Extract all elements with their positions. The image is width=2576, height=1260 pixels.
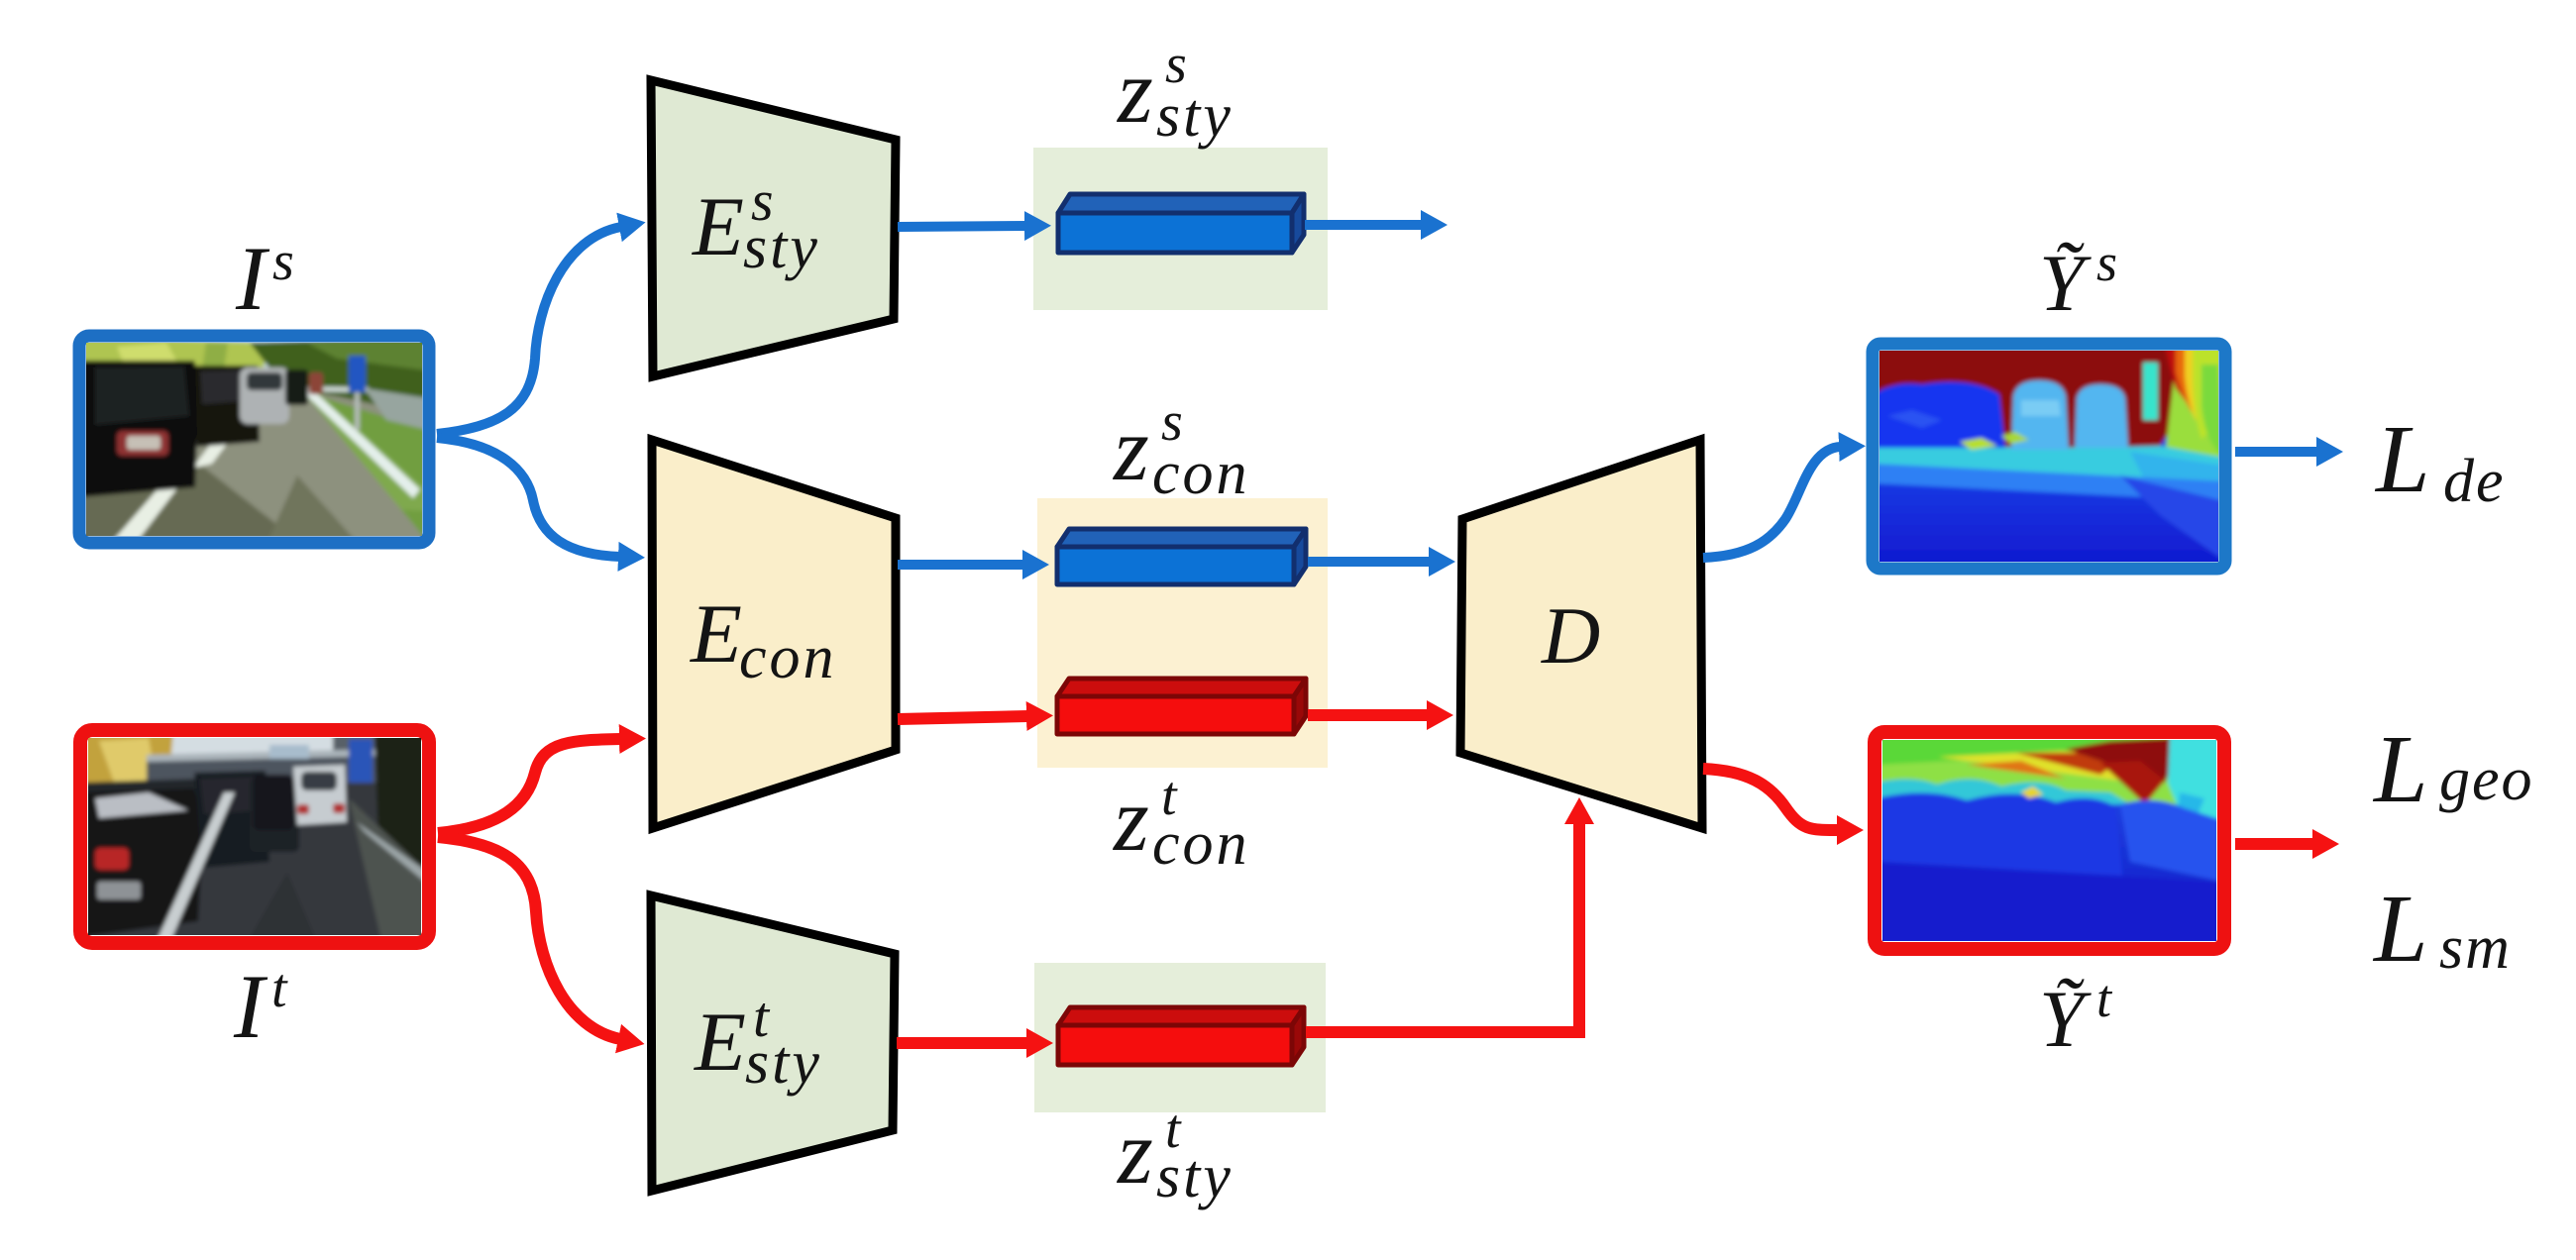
wire red E_sty^t to z_sty^t (897, 1037, 1028, 1049)
encoder E_con (652, 440, 896, 828)
decoder D (1460, 440, 1702, 828)
depth output Y^s (1873, 344, 2225, 569)
wire blue Y^s to L_de (2235, 447, 2318, 457)
source image I^s (79, 336, 429, 543)
svg-text:z: z (1112, 769, 1149, 870)
latent code bar z_sty^s (blue) (1058, 194, 1304, 253)
node I^s label (235, 228, 294, 329)
svg-text:t: t (271, 958, 288, 1019)
latent code bar z_sty^t (red) (1058, 1007, 1304, 1065)
wire blue I^s to E_sty^s (437, 227, 621, 434)
node I^t label (233, 956, 288, 1057)
svg-text:s: s (272, 231, 294, 292)
svg-text:con: con (1152, 440, 1250, 507)
svg-text:z: z (1112, 398, 1149, 499)
wire label L_de (2374, 406, 2506, 515)
wire blue z_con^s to D (1308, 557, 1431, 567)
wire label L_geo (2372, 716, 2534, 823)
depth output Y^t (1875, 732, 2224, 949)
svg-text:I: I (233, 956, 268, 1057)
latent panel z_sty^s (1033, 148, 1328, 310)
svg-text:L: L (2372, 716, 2428, 823)
svg-text:L: L (2374, 406, 2430, 513)
svg-text:sty: sty (1156, 82, 1234, 150)
wire red I^t to E_sty^t (438, 837, 620, 1039)
svg-text:z: z (1116, 1102, 1153, 1203)
encoder E_sty^t (651, 895, 895, 1191)
label Y~^t (2039, 969, 2113, 1064)
latent code bar z_con^t (red) (1057, 679, 1306, 734)
svg-text:con: con (739, 624, 837, 691)
svg-text:L: L (2372, 876, 2428, 983)
label z_sty^s (1116, 34, 1234, 150)
svg-text:con: con (1152, 810, 1250, 878)
wire blue D to Y^s (1703, 447, 1841, 558)
wire red Y^t to losses (2235, 838, 2314, 850)
wire red I^t to E_con (438, 739, 621, 833)
wire red z_sty^t elbow to D bottom (1306, 822, 1579, 1032)
svg-text:E: E (692, 180, 744, 273)
svg-text:de: de (2443, 448, 2506, 515)
encoder E_sty^s (651, 80, 896, 376)
label z_con^s (1112, 391, 1250, 507)
svg-text:sty: sty (743, 214, 820, 281)
label z_sty^t (1116, 1099, 1234, 1210)
wire label L_sm (2372, 876, 2512, 983)
svg-text:z: z (1116, 41, 1153, 142)
wire red E_con to z_con^t (898, 716, 1028, 719)
svg-text:E: E (690, 587, 742, 681)
label z_con^t (1112, 766, 1250, 878)
svg-text:E: E (694, 996, 746, 1089)
svg-text:sm: sm (2439, 914, 2512, 982)
wire blue E_con to z_con^s (898, 560, 1024, 570)
wire blue z_sty^s out (1305, 220, 1423, 230)
svg-text:geo: geo (2439, 746, 2534, 813)
wire blue E_sty^s to z_sty^s (898, 226, 1026, 227)
target image I^t (80, 730, 429, 943)
svg-text:D: D (1541, 590, 1600, 681)
latent panel z_con (1037, 498, 1328, 768)
svg-text:t: t (2096, 969, 2113, 1028)
svg-text:s: s (2096, 233, 2117, 292)
wire red D to Y^t (1703, 769, 1839, 830)
svg-text:sty: sty (745, 1029, 822, 1097)
wire red z_con^t to D (1308, 709, 1429, 721)
svg-text:Ỹ: Ỹ (2039, 238, 2092, 328)
svg-text:Ỹ: Ỹ (2039, 974, 2092, 1064)
latent code bar z_con^s (blue) (1057, 529, 1306, 584)
wire blue I^s to E_con (437, 438, 620, 557)
latent panel z_sty^t (1034, 963, 1326, 1112)
svg-text:sty: sty (1156, 1143, 1234, 1210)
svg-text:I: I (235, 228, 270, 329)
label Y~^s (2039, 233, 2117, 328)
